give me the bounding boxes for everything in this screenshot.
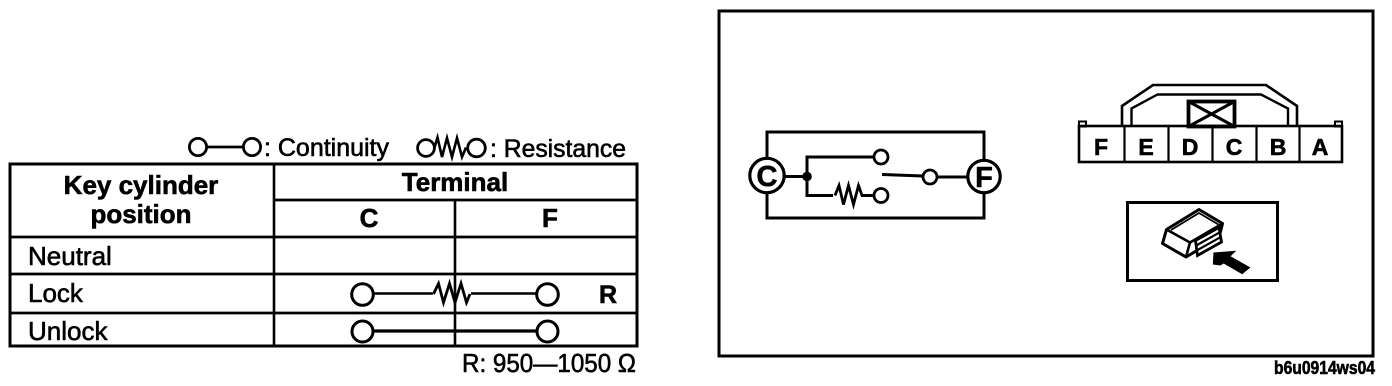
svg-text:F: F [1094,134,1108,160]
right panel outer box [719,11,1373,356]
lower switch contact [874,189,888,203]
switch pole wire [882,175,923,177]
svg-text:E: E [1138,134,1153,160]
table row line under Neutral [10,273,637,276]
module inset box [1128,203,1278,281]
svg-text:: Continuity: : Continuity [264,134,389,162]
connector lock crossed box [1189,102,1235,127]
table row line under Lock [10,312,637,315]
connector bridge inner line [1132,95,1289,127]
svg-text:R: 950—1050 Ω: R: 950—1050 Ω [462,348,636,378]
terminal F circle [968,160,1000,192]
table column divider (position | terminal) [273,164,276,346]
svg-text:A: A [1312,134,1329,160]
svg-text:Key cylinder: Key cylinder [64,170,219,200]
arrow pointing at module connector [1213,251,1251,274]
connector top-left tab [1079,122,1086,127]
legend resistor symbol terminals [418,139,486,157]
svg-text:Unlock: Unlock [28,316,108,346]
wire junction to upper contact [807,157,874,177]
connector cell dividers [1125,126,1300,162]
lock row wire left [374,292,433,295]
unlock row terminal circle F [537,321,558,342]
switch pole contact [923,170,937,184]
module connector slots [1196,232,1221,250]
connector bridge outer line [1122,85,1297,126]
upper switch contact [874,150,888,164]
svg-text:C: C [360,203,379,233]
connector top-right tab [1335,122,1342,127]
module connector block [1196,228,1222,256]
terminal C circle [750,158,784,192]
svg-text:b6u0914ws04: b6u0914ws04 [1274,357,1376,378]
unlock row continuity wire [373,329,537,332]
lock row terminal circle C [352,284,374,306]
svg-text:position: position [90,199,191,229]
svg-text:D: D [1182,134,1199,160]
module lid inset line [1171,213,1219,230]
wire junction to resistor [807,177,833,196]
svg-text:C: C [1226,134,1243,160]
svg-text:: Resistance: : Resistance [490,135,626,163]
wire resistor to lower contact [861,194,874,197]
svg-text:Lock: Lock [28,278,84,308]
node junction dot [802,172,812,182]
svg-text:Terminal: Terminal [402,167,508,197]
table column divider (C | F) [454,200,457,346]
svg-text:B: B [1270,134,1287,160]
table row line under C/F header [10,236,637,239]
connector body [1079,126,1342,162]
legend continuity symbol terminals and wire [189,138,260,155]
svg-text:Neutral: Neutral [28,241,112,271]
lock row resistor R [434,284,471,303]
table row line under Terminal header [274,199,637,202]
wire C to junction [785,175,807,178]
svg-text:F: F [542,203,558,233]
svg-text:F: F [975,162,993,194]
lock row wire right [471,292,537,295]
wire pole to F [937,176,968,179]
unlock row terminal circle C [352,321,373,342]
svg-text:R: R [599,281,617,309]
svg-text:C: C [757,161,778,193]
table outer border [10,164,637,346]
module top face edges [1167,224,1223,258]
circuit resistor [835,186,862,205]
circuit loop wire [767,132,984,218]
module body silhouette [1163,210,1223,258]
legend resistor zigzag [435,138,467,158]
lock row terminal circle F [537,284,559,306]
